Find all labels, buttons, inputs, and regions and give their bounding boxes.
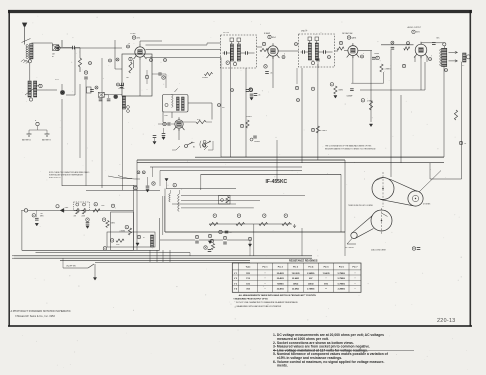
svg-text:2.9MEG: 2.9MEG [307,273,315,275]
svg-text:Pin 3: Pin 3 [293,266,299,268]
svg-text:Pin 1: Pin 1 [263,266,269,268]
svg-text:73MEG: 73MEG [277,283,284,285]
svg-text:250MMF: 250MMF [118,88,125,90]
svg-text:1MEG: 1MEG [339,90,344,92]
svg-text:RECEIVER MAKES IT POSSIBLE TO: RECEIVER MAKES IT POSSIBLE TO BRING YOU … [325,148,376,151]
svg-text:6 TURNS: 6 TURNS [423,204,431,206]
svg-text:5.7MEG: 5.7MEG [338,283,346,285]
svg-text:THE COORDINATION OF THE MANUFA: THE COORDINATION OF THE MANUFACTURERS OF… [325,145,372,148]
svg-text:1ST IF: 1ST IF [223,32,230,34]
svg-text:5.7MEG: 5.7MEG [338,278,346,280]
svg-text:CONV: CONV [130,33,136,35]
svg-text:2ND IF: 2ND IF [301,31,308,33]
svg-text:IN60: IN60 [65,207,68,209]
svg-text:ELECTROLYTIC: ELECTROLYTIC [49,177,62,179]
svg-text:47K: 47K [74,216,77,218]
svg-text:B2: B2 [193,147,195,149]
svg-text:24KΩ: 24KΩ [308,282,314,285]
svg-text:ments.: ments. [277,364,288,368]
svg-text:OSC: OSC [164,115,169,117]
svg-text:4.7MEG: 4.7MEG [367,100,373,102]
svg-text:15KΩ: 15KΩ [293,283,299,285]
svg-text:4.7MEG: 4.7MEG [385,68,392,70]
svg-text:2.2MEG: 2.2MEG [338,289,346,291]
svg-text:* DO NOT USE OHMMETER TO MEASU: * DO NOT USE OHMMETER TO MEASURE FILAMEN… [235,301,299,304]
svg-text:DIAL CORD DRIVE: DIAL CORD DRIVE [371,249,387,252]
svg-text:A PHOTOFACT STANDARD NOTATION: A PHOTOFACT STANDARD NOTATION SCHEMATIC [11,310,71,313]
svg-text:Tube: Tube [246,266,252,268]
svg-text:YEL: YEL [40,213,43,215]
svg-text:500MMF: 500MMF [254,141,260,143]
svg-text:2.7MEG: 2.7MEG [307,289,315,291]
svg-text:97Ω: 97Ω [324,283,328,285]
svg-text:5.7MEG: 5.7MEG [338,273,346,275]
svg-text:Pin 5: Pin 5 [324,266,330,268]
svg-text:2T: 2T [150,57,152,59]
svg-text:3.3MEG: 3.3MEG [246,116,252,118]
svg-text:500MMF: 500MMF [347,95,353,97]
svg-text:220-13: 220-13 [437,318,456,324]
svg-text:△ MEASURED WITH VACUUM TUBE VO: △ MEASURED WITH VACUUM TUBE VOLTMETER [235,305,282,308]
svg-text:Pin 7: Pin 7 [353,266,359,268]
svg-text:IF-455KC: IF-455KC [266,179,288,185]
svg-text:22.4KΩ: 22.4KΩ [277,277,284,280]
svg-text:22.4KΩ: 22.4KΩ [277,272,284,275]
svg-text:.05: .05 [258,95,260,97]
svg-text:470K: 470K [116,244,120,246]
svg-text:47K: 47K [222,107,225,109]
svg-text:6AT6: 6AT6 [351,36,357,39]
svg-text:B1: B1 [193,142,195,144]
svg-text:4.7: 4.7 [143,237,145,239]
svg-text:1S: 1S [128,43,130,45]
svg-text:IF AMP: IF AMP [264,32,271,35]
svg-text:BLK: BLK [437,38,440,40]
svg-text:GRN: GRN [40,215,43,217]
svg-text:4.7MEG: 4.7MEG [320,130,327,132]
svg-text:22.4KΩ: 22.4KΩ [292,277,299,280]
svg-text:Pin 2: Pin 2 [278,266,284,268]
svg-text:Pin 4: Pin 4 [308,265,314,268]
svg-text:©Howard W. Sams & Co., Inc. 19: ©Howard W. Sams & Co., Inc. 1953 [15,315,55,318]
svg-text:470MMF: 470MMF [202,77,208,79]
svg-text:B1: B1 [52,56,54,58]
svg-text:**: ** [325,289,327,291]
svg-text:22.4KΩ: 22.4KΩ [277,288,284,291]
svg-text:220K: 220K [82,216,86,218]
svg-text:1M: 1M [126,77,129,79]
svg-text:22.4KΩ: 22.4KΩ [292,288,299,291]
svg-text:.05: .05 [270,73,272,75]
svg-text:RESISTANCE READINGS: RESISTANCE READINGS [289,259,318,262]
svg-text:Pin 6: Pin 6 [339,266,345,268]
svg-text:ALL MEASUREMENTS TAKEN WITH BA: ALL MEASUREMENTS TAKEN WITH BAND SWITCH … [239,294,317,297]
svg-text:DET-AVC-AF: DET-AVC-AF [342,32,353,35]
svg-text:AUDIO OUTPUT: AUDIO OUTPUT [408,26,422,29]
svg-text:3/4 TURNS: 3/4 TURNS [345,247,354,249]
svg-text:11.4KΩ: 11.4KΩ [323,272,330,275]
svg-text:ON-OFF SW: ON-OFF SW [66,266,76,268]
svg-text:† MEASURED FROM OUTPUT OF B1: † MEASURED FROM OUTPUT OF B1 [233,298,269,301]
svg-text:220K: 220K [101,205,105,207]
svg-text:3.2: 3.2 [462,65,464,67]
svg-text:6- Volume control at maximum,: 6- Volume control at maximum, no signal … [273,360,384,364]
svg-text:110.2KΩ: 110.2KΩ [292,273,300,275]
svg-text:10MEG: 10MEG [374,53,380,55]
